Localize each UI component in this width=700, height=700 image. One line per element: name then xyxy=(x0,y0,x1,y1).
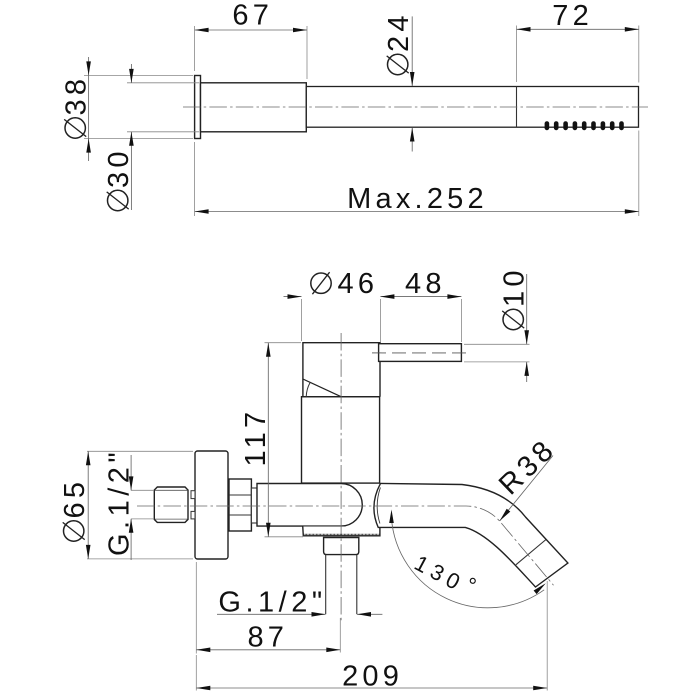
step ring xyxy=(251,488,257,523)
svg-text:10: 10 xyxy=(499,266,531,307)
hex nut on wall side xyxy=(229,479,251,531)
dimension 87 extension lines xyxy=(195,562,197,654)
handle slant cut xyxy=(303,379,341,397)
dimension R38 text xyxy=(493,433,563,502)
dimension 117 text xyxy=(240,408,272,467)
spout aerator line xyxy=(516,540,546,565)
cartridge housing xyxy=(302,397,380,483)
dimension R38 leader xyxy=(500,456,553,522)
knurled collar under body xyxy=(303,527,380,536)
lower hex nut xyxy=(324,538,359,555)
dimension dia46 48 extension lines xyxy=(301,299,303,341)
mixer body cylinder xyxy=(257,484,362,527)
dimension G12 left extension lines xyxy=(131,489,154,491)
svg-text:67: 67 xyxy=(232,0,273,32)
dimension 87 line and arrows xyxy=(196,649,340,651)
threaded nipple G1/2 xyxy=(154,487,188,522)
dimension G12 left line and arrows xyxy=(130,455,132,490)
dimension 48 line and arrows xyxy=(380,296,461,298)
vertical centerline mixer xyxy=(340,333,342,622)
dimension 130deg arc xyxy=(391,517,544,607)
dimension 117 extension lines xyxy=(265,342,302,344)
dimension G12 left text xyxy=(104,448,136,556)
dimension 67 line and arrows xyxy=(195,29,307,31)
svg-text:46: 46 xyxy=(338,268,379,300)
dimension dia10 text xyxy=(499,266,531,329)
svg-text:72: 72 xyxy=(552,0,593,32)
dimension dia38 extension lines xyxy=(84,74,193,76)
dimension dia24 text xyxy=(383,11,415,74)
dimension 67 extension lines xyxy=(194,26,196,71)
spout inner edge double line xyxy=(377,488,380,524)
svg-text:30: 30 xyxy=(103,147,135,188)
dimension dia10 extension lines xyxy=(464,343,530,345)
dimension dia38 text xyxy=(61,75,93,138)
dimension dia65 text xyxy=(59,478,91,541)
svg-text:38: 38 xyxy=(61,75,93,116)
svg-text:48: 48 xyxy=(405,268,446,300)
dimension 130deg text xyxy=(410,546,485,604)
nipple collar rings xyxy=(191,491,195,499)
handshower handle body xyxy=(201,83,307,132)
dimension dia65 line and arrows xyxy=(87,451,89,559)
handle cap xyxy=(303,343,380,397)
wall flange xyxy=(195,451,228,559)
handle lever xyxy=(379,344,462,362)
centerline handshower axis xyxy=(183,106,648,108)
dimension dia30 line and arrows xyxy=(130,64,132,83)
dimension dia65 extension lines xyxy=(87,450,193,452)
svg-text:Max.252: Max.252 xyxy=(347,183,488,215)
horizontal centerline mixer and spout axis xyxy=(137,506,554,585)
dimension G12 bottom line and arrows xyxy=(217,613,326,615)
svg-text:209: 209 xyxy=(342,661,403,693)
dimension dia38 line and arrows xyxy=(88,57,90,161)
dimension dia24 line and arrows xyxy=(411,16,413,86)
dimension dia46 line and arrows xyxy=(284,296,302,298)
dimension Max252 line and arrows xyxy=(195,211,639,213)
tailpiece tube xyxy=(325,555,327,615)
spout xyxy=(374,483,568,587)
spray head junction line xyxy=(516,87,518,128)
dimension dia46 text xyxy=(311,273,331,293)
dimension dia30 extension lines xyxy=(127,82,199,84)
dimension 117 line and arrows xyxy=(267,343,269,537)
dimension Max252 extension lines xyxy=(194,142,196,216)
svg-text:24: 24 xyxy=(383,11,415,52)
handshower end ring xyxy=(195,76,201,139)
dimension 72 line and arrows xyxy=(517,28,639,30)
dimension dia10 line and arrows xyxy=(526,274,528,344)
svg-text:G.1/2": G.1/2" xyxy=(218,586,326,618)
svg-text:117: 117 xyxy=(240,408,272,467)
svg-text:65: 65 xyxy=(59,478,91,519)
svg-text:G.1/2": G.1/2" xyxy=(104,448,136,556)
dimension 209 extension lines xyxy=(195,655,197,691)
dimension 72 extension lines xyxy=(516,26,518,83)
lever dashed centerline xyxy=(372,352,470,354)
dimension dia30 text xyxy=(103,147,135,210)
dimension 209 line and arrows xyxy=(196,687,547,689)
svg-text:87: 87 xyxy=(247,622,288,654)
handshower spray tube xyxy=(306,87,638,128)
spray nozzle dots xyxy=(545,121,550,130)
